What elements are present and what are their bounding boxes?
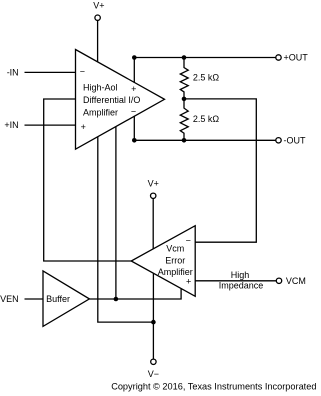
svg-text:2.5 kΩ: 2.5 kΩ	[193, 114, 220, 124]
svg-text:High-Aol: High-Aol	[83, 83, 118, 93]
svg-text:Vcm: Vcm	[166, 244, 184, 254]
wire buffer output to U2 enable	[89, 289, 181, 299]
terminal VCM	[276, 278, 281, 283]
wire -IN input	[25, 71, 76, 73]
svg-text:V+: V+	[148, 179, 159, 189]
svg-text:VEN: VEN	[0, 294, 19, 304]
node junction resistor top	[182, 55, 187, 60]
svg-text:V+: V+	[93, 1, 104, 11]
svg-text:+OUT: +OUT	[284, 53, 309, 63]
svg-text:-IN: -IN	[7, 67, 19, 77]
svg-text:−: −	[186, 236, 191, 246]
node junction resistor middle	[182, 97, 187, 102]
node junction resistor bottom	[182, 138, 187, 143]
svg-text:Amplifier: Amplifier	[158, 267, 193, 277]
wire +IN input	[25, 124, 76, 126]
svg-text:−: −	[80, 67, 85, 77]
wire U2 plus input to VCM	[195, 280, 276, 282]
svg-text:+: +	[81, 122, 86, 132]
buffer U3	[43, 271, 89, 327]
svg-text:High: High	[231, 270, 250, 280]
svg-text:V−: V−	[148, 369, 159, 379]
svg-text:-OUT: -OUT	[284, 135, 306, 145]
wire middle node to Vcm error amp minus input	[184, 99, 256, 242]
wire U1 plus output stub	[133, 58, 135, 83]
svg-text:Error: Error	[165, 255, 185, 265]
node junction top-left	[132, 55, 137, 60]
wire V- stub from U2	[152, 274, 154, 323]
wire Vcm feedback into U1 mid input	[44, 99, 132, 261]
wire V- from U1	[98, 137, 154, 322]
svg-text:+IN: +IN	[4, 120, 18, 130]
svg-text:Buffer: Buffer	[46, 294, 70, 304]
wire VEN input	[25, 298, 44, 300]
resistor R2 2.5k bottom	[180, 99, 188, 140]
node junction V-	[151, 320, 156, 325]
svg-text:−: −	[131, 106, 136, 116]
label U1 name	[83, 83, 140, 118]
label U2 name	[158, 244, 193, 277]
wire V+ stub to U1	[97, 21, 99, 62]
svg-text:Amplifier: Amplifier	[83, 108, 118, 118]
wire top output to +OUT	[134, 57, 275, 59]
wire U1 minus output stub	[133, 116, 135, 140]
op-amp U2 Vcm Error Amplifier	[131, 226, 195, 297]
resistor R1 2.5k top	[180, 58, 188, 99]
svg-text:VCM: VCM	[286, 276, 306, 286]
op-amp U1 High-Aol Differential I/O Amplifier	[76, 50, 165, 150]
terminal V-	[151, 359, 156, 364]
svg-text:Copyright © 2016, Texas Instru: Copyright © 2016, Texas Instruments Inco…	[111, 381, 316, 391]
node junction buffer output	[114, 297, 119, 302]
svg-text:Differential I/O: Differential I/O	[83, 95, 140, 105]
wire V+ stub to U2	[152, 199, 154, 249]
wire enable vertical to U1	[115, 127, 117, 299]
wire bottom output to -OUT	[134, 139, 275, 141]
node junction bottom-left	[132, 138, 137, 143]
svg-text:2.5 kΩ: 2.5 kΩ	[193, 73, 220, 83]
terminal +OUT	[276, 55, 281, 60]
svg-text:+: +	[131, 84, 136, 94]
terminal V+ mid	[151, 193, 156, 198]
label High Impedance	[219, 270, 264, 291]
terminal -OUT	[276, 138, 281, 143]
svg-text:+: +	[186, 277, 191, 287]
wire V- down to terminal	[152, 322, 154, 359]
svg-text:Impedance: Impedance	[219, 281, 264, 291]
terminal V+ top	[95, 15, 100, 20]
